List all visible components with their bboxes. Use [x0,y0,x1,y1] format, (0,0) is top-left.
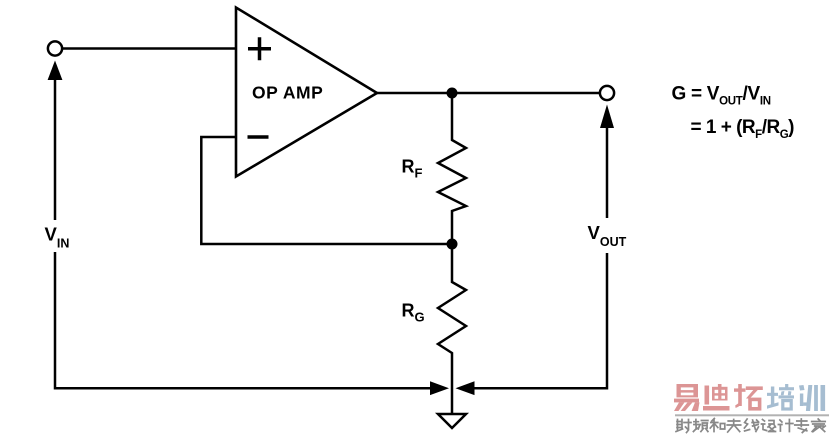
resistor RF [438,93,466,244]
svg-text:= 1 + (RF/RG): = 1 + (RF/RG) [691,117,795,141]
svg-text:OP AMP: OP AMP [252,83,323,103]
svg-text:RG: RG [402,301,425,325]
current arrow into ground node (right) [456,381,475,395]
watermark char 4 (blue) [767,384,794,409]
wire: input terminal to op-amp noninverting input [62,47,236,50]
svg-text:RF: RF [402,157,423,181]
watermark tagline char f [762,420,776,432]
svg-text:VOUT: VOUT [588,222,627,249]
op-amp inverting input pin − [248,135,269,139]
watermark tagline char i [812,419,826,432]
op-amp noninverting input pin + [248,37,271,60]
watermark tagline char d [727,420,741,433]
output terminal (Vout node) [600,86,614,100]
Vin reference arrow [48,61,63,221]
watermark tagline char c [710,419,725,432]
ground [438,414,466,428]
svg-text:G = VOUT/VIN: G = VOUT/VIN [672,84,771,108]
wire: ground return bottom left [55,252,433,388]
watermark divider line [675,414,829,416]
watermark tagline char e [744,419,758,432]
resistor RG [438,244,466,414]
wire: op-amp output to output terminal [377,92,600,95]
svg-text:VIN: VIN [45,224,70,251]
watermark char 2 (red) [703,384,730,411]
watermark char 1 (red) [674,384,700,411]
wire: feedback from junction to inverting input [201,137,452,244]
Vout reference arrow [600,105,614,219]
node: feedback junction [447,239,458,250]
watermark tagline char g [778,420,793,432]
node: output junction [447,88,458,99]
wire: ground return bottom right [472,253,607,388]
watermark char 5 (blue) [799,385,825,411]
watermark char 3 (red) [734,384,763,409]
watermark tagline char h [795,419,809,433]
input terminal (Vin node) [48,41,62,55]
current arrow into ground node (left) [430,381,449,395]
watermark tagline char b [693,420,708,432]
watermark tagline char a [676,420,691,433]
op-amp U1 [236,8,377,177]
